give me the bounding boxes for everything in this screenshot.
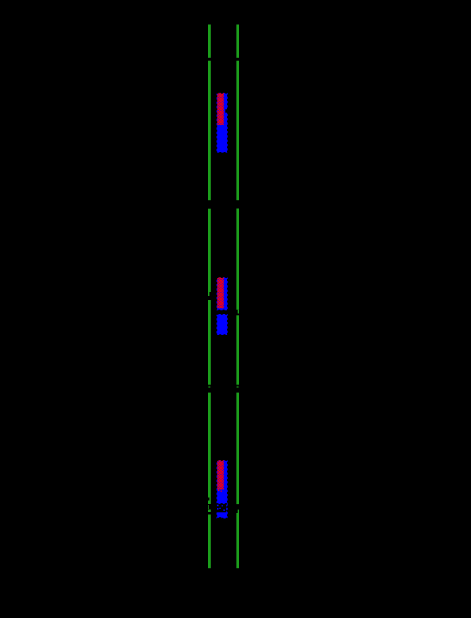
activation bar 3 red hatched overlay: [217, 460, 223, 489]
activation bar 3 destroyed band (blue under black X): [217, 504, 228, 519]
blue speck 3 in X band: [219, 508, 220, 509]
lifeline A segment 3: [208, 209, 211, 292]
activation bar 1 (blue base): [217, 93, 228, 153]
blue speck 4 in X band: [223, 510, 225, 511]
lifeline A half-notch at arrowhead (y292-296 left half kept): [208, 292, 209, 296]
black dash on right blue column of band: [226, 506, 227, 508]
activation bar 2 lower dashed border: [217, 314, 228, 335]
activation bar 3 upper dashed border: [217, 460, 228, 504]
lifeline B segment 2: [236, 61, 239, 201]
black notch bottom center of bar 3: [219, 517, 221, 518]
activation bar 1 red hatched overlay: [217, 93, 223, 125]
activation bar 1 right-edge notch: [225, 109, 228, 112]
lifeline A thin sliver y505-509: [208, 505, 209, 509]
lifeline A segment 5: [208, 393, 211, 498]
lifeline A blob y509.5-512: [208, 510, 211, 513]
blue speck 5 in X band: [222, 505, 223, 506]
lifeline B segment 4: [236, 315, 239, 384]
lifeline A segment 4: [208, 300, 211, 385]
lifeline B segment 5: [236, 393, 239, 505]
lifeline A (left, green) segment 1: [208, 25, 211, 58]
activation bar 2 upper (blue base): [217, 277, 228, 310]
activation bar 2 upper dashed border: [217, 277, 228, 310]
lifeline A segment 7: [208, 515, 211, 569]
red speck below hatch 1: [218, 490, 219, 491]
lifeline B segment 6: [236, 513, 239, 568]
activation bar 2 red hatched overlay: [217, 277, 223, 308]
red speck below hatch 2: [221, 491, 222, 492]
lifeline B faint nub in gap: [237, 386, 239, 388]
blue speck 2 in X band: [217, 508, 219, 510]
black X overlay on destroyed band: [217, 504, 227, 512]
activation bar 1 dashed border (black): [217, 93, 228, 153]
black dash 2 on right blue column of band: [226, 510, 227, 511]
lifeline A faint nub in gap: [208, 386, 210, 388]
blue speck 1 in X band: [217, 505, 219, 507]
lifeline B (right, green) segment 1: [236, 25, 239, 58]
lifeline B segment 3: [236, 209, 239, 310]
lifeline A segment 2: [208, 61, 211, 201]
lifeline B half-notch (right half kept) y309.7-313.5: [238, 310, 239, 314]
activation bar 3 bottom dashed border: [217, 504, 228, 519]
lifeline B half-notch (right half kept) y509.6-513: [238, 510, 239, 513]
lifeline A half-notch (right half kept) y497.5-500.5: [209, 498, 210, 501]
activation bar 2 lower (blue): [217, 314, 228, 335]
activation bar 3 upper (blue base): [217, 460, 228, 504]
lifeline A segment 6: [208, 501, 211, 505]
